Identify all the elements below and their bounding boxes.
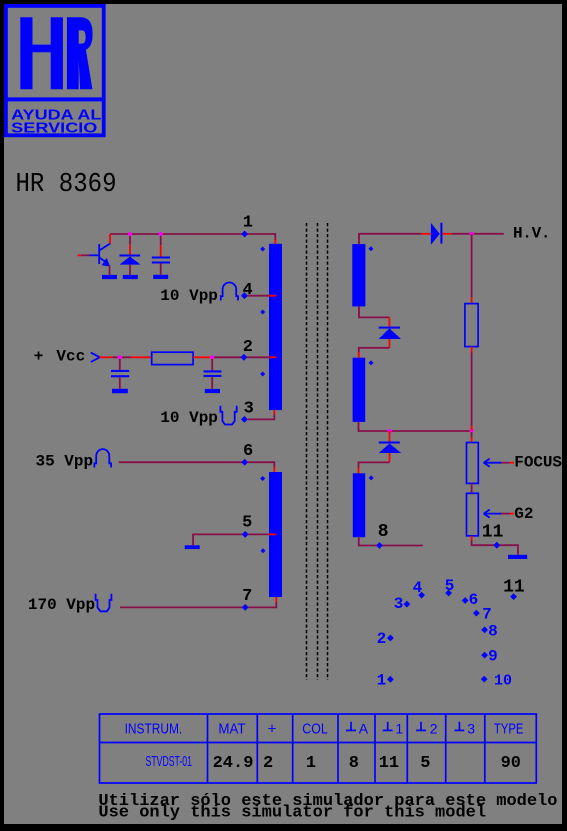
- svg-text:1: 1: [306, 754, 316, 773]
- wire: D2 anode to S2 top: [388, 339, 390, 348]
- wire: winding bottom to pin 3: [273, 410, 275, 415]
- svg-text:1: 1: [395, 721, 403, 737]
- wire: S3 bottom to pin 8: [359, 537, 423, 545]
- polarity dot S2: [369, 360, 374, 365]
- ground (emitter): [102, 275, 117, 279]
- pinout pin 3: [404, 601, 411, 608]
- diode D2: [379, 327, 400, 329]
- wire: Vcc feed: [100, 356, 113, 358]
- ground (pin 11): [508, 555, 527, 559]
- wire: bleeder to focus junction: [471, 347, 473, 353]
- svg-text:1: 1: [243, 214, 253, 233]
- wire: rail drop into winding top: [274, 240, 276, 244]
- svg-text:7: 7: [242, 587, 252, 606]
- svg-text:2: 2: [430, 721, 438, 737]
- table frame: [100, 714, 537, 783]
- pinout pin 10: [481, 676, 488, 683]
- svg-text:Vcc: Vcc: [56, 348, 85, 366]
- waveform pulse up (pin4): [221, 283, 238, 301]
- svg-text:A: A: [359, 721, 369, 737]
- header ⊥2: [416, 722, 426, 731]
- diode D3: [379, 442, 400, 444]
- pin 2 diamond: [241, 354, 248, 361]
- pinout pin 2: [387, 635, 394, 642]
- svg-text:11: 11: [379, 754, 399, 773]
- diode D4 (H.V. rectifier): [431, 223, 440, 245]
- pinout pin 4: [418, 592, 425, 599]
- wire: pin 4 tap: [248, 295, 270, 297]
- wire: C1 branch: [160, 236, 162, 245]
- header ⊥1: [383, 722, 393, 731]
- pin 3 diamond: [241, 416, 248, 423]
- logo letter H: [20, 17, 63, 89]
- potentiometer FOCUS: [467, 443, 479, 484]
- svg-text:Use only this simulator for th: Use only this simulator for this model: [98, 803, 486, 822]
- wire: between pots: [471, 483, 473, 493]
- pinout pin 8: [481, 627, 488, 634]
- polarity dot P2a: [260, 476, 265, 481]
- polarity dot P2b: [261, 548, 266, 553]
- polarity dot S1: [368, 246, 373, 251]
- logo letter R: [67, 17, 93, 89]
- winding S3: [353, 473, 365, 537]
- ground (pin5): [185, 545, 200, 549]
- svg-text:6: 6: [469, 591, 479, 609]
- wire: C3 to ground: [211, 377, 213, 389]
- svg-text:10 Vpp: 10 Vpp: [160, 287, 218, 305]
- waveform pulse up (pin6): [94, 449, 111, 467]
- ground (C1): [153, 275, 168, 279]
- wire: emitter to ground: [109, 266, 111, 276]
- wire: R1 to junction: [193, 356, 212, 358]
- svg-text:10 Vpp: 10 Vpp: [160, 409, 218, 427]
- pinout pin 7: [473, 610, 480, 617]
- wire: pin 5 to ground: [193, 534, 269, 545]
- svg-text:5: 5: [420, 754, 430, 773]
- pin 11 diamond: [493, 542, 500, 549]
- svg-text:STVDST-01: STVDST-01: [146, 753, 193, 770]
- capacitor C2: [111, 370, 129, 372]
- svg-text:2: 2: [377, 630, 387, 648]
- core dashed line 2: [317, 223, 319, 680]
- winding S1: [352, 244, 365, 306]
- polarity dot P1b: [260, 310, 265, 315]
- wire: winding P2 bottom to pin 7: [275, 597, 277, 603]
- polarity dot S3: [369, 475, 374, 480]
- svg-text:3: 3: [467, 721, 475, 737]
- ground (C3): [205, 389, 220, 393]
- svg-text:11: 11: [482, 523, 504, 543]
- pin 7 diamond: [242, 604, 249, 611]
- wire: S1 bottom to D2: [359, 306, 389, 317]
- svg-text:2: 2: [263, 754, 273, 773]
- wire: D4 to HV node: [442, 233, 452, 235]
- node: rail junction D1: [128, 232, 132, 236]
- wire: S2 bottom row: [359, 422, 472, 431]
- svg-text:6: 6: [243, 442, 253, 461]
- pinout pin 9: [481, 652, 488, 659]
- node: bleeder junction: [470, 429, 474, 433]
- node: D3 junction: [387, 429, 391, 433]
- svg-text:7: 7: [482, 605, 492, 623]
- pin 1 diamond: [241, 231, 248, 238]
- waveform pulse down (pin3): [220, 406, 236, 425]
- wire: top rail pin1: [110, 234, 275, 240]
- wire: D1 to ground: [129, 265, 131, 275]
- svg-text:35 Vpp: 35 Vpp: [36, 453, 94, 471]
- svg-text:TYPE: TYPE: [494, 721, 524, 738]
- winding P1: [269, 244, 282, 410]
- pin 8 diamond: [376, 542, 383, 549]
- ground (C2): [112, 389, 128, 393]
- table divider horizontal: [100, 742, 537, 744]
- table verticals: [207, 714, 209, 783]
- svg-text:170 Vpp: 170 Vpp: [28, 596, 95, 614]
- winding S2: [353, 358, 366, 422]
- wire: junction down to FOCUS pot: [471, 432, 473, 438]
- svg-text:8: 8: [488, 623, 498, 641]
- pinout pin 5: [445, 590, 452, 597]
- pin 4 diamond: [241, 292, 248, 299]
- svg-text:5: 5: [445, 577, 455, 595]
- node: C3 junction: [210, 355, 214, 359]
- node: H.V. junction: [470, 232, 474, 236]
- node: C2 junction: [118, 355, 122, 359]
- capacitor C1: [152, 257, 170, 259]
- input arrow >: [91, 353, 100, 362]
- svg-text:SERVICIO: SERVICIO: [11, 120, 97, 137]
- pinout pin 6: [462, 597, 469, 604]
- polarity dot P1c: [260, 372, 265, 377]
- logo divider bar: [4, 97, 106, 101]
- svg-text:MAT: MAT: [218, 721, 245, 738]
- svg-text:COL: COL: [302, 721, 327, 738]
- transistor Q1: [99, 244, 110, 267]
- node: rail junction C1: [159, 232, 163, 236]
- svg-text:HR 8369: HR 8369: [16, 169, 117, 199]
- svg-text:3: 3: [394, 595, 404, 613]
- capacitor C3: [204, 370, 222, 372]
- wire: C3 branch: [211, 359, 213, 371]
- svg-text:5: 5: [242, 514, 252, 533]
- wire: G2 pot to pin 11 and ground: [471, 536, 473, 541]
- svg-text:1: 1: [377, 672, 387, 690]
- resistor R1: [152, 352, 193, 364]
- wire: C1 to ground: [160, 264, 162, 275]
- svg-text:INSTRUM.: INSTRUM.: [125, 721, 183, 738]
- wire: D3 cathode lead: [389, 431, 391, 442]
- header ⊥A: [346, 722, 356, 731]
- arrow FOCUS: [484, 459, 502, 467]
- arrow G2: [484, 510, 502, 518]
- diode D1: [120, 255, 141, 257]
- logo frame: [6, 6, 104, 135]
- wire: pin 6 feed: [119, 462, 274, 467]
- svg-text:11: 11: [503, 578, 525, 598]
- wire: junction to pin 2: [214, 356, 269, 358]
- waveform pulse down (pin7): [96, 594, 112, 612]
- svg-text:G2: G2: [514, 505, 533, 523]
- svg-text:9: 9: [488, 647, 498, 665]
- pinout pin 1: [387, 676, 394, 683]
- wire: D1 branch: [129, 236, 131, 245]
- svg-text:90: 90: [501, 754, 521, 773]
- winding P2: [269, 472, 282, 597]
- svg-text:+: +: [268, 721, 277, 738]
- transistor Q1 collector lead: [109, 234, 111, 244]
- svg-text:4: 4: [413, 579, 423, 597]
- wire: D3 anode to S3 top: [389, 453, 391, 462]
- svg-text:8: 8: [349, 754, 359, 773]
- wire: C2 to ground: [119, 377, 121, 389]
- svg-text:24.9: 24.9: [213, 754, 254, 773]
- header ⊥3: [454, 722, 464, 731]
- wire: C2 branch: [119, 359, 121, 370]
- svg-text:8: 8: [378, 522, 389, 542]
- core dashed line 3: [327, 223, 329, 680]
- wire: D2 cathode lead: [388, 317, 390, 326]
- pinout pin 11: [510, 593, 517, 600]
- resistor R2 (bleeder): [465, 304, 478, 347]
- polarity dot P1a: [260, 247, 265, 252]
- svg-text:3: 3: [244, 399, 254, 418]
- wire: HV node down to bleeder: [471, 234, 473, 297]
- pin 5 diamond: [242, 531, 249, 538]
- svg-text:4: 4: [242, 281, 252, 300]
- svg-text:10: 10: [494, 673, 512, 690]
- wire: S1 top to HV diode: [359, 234, 421, 244]
- potentiometer G2: [467, 493, 479, 536]
- transistor Q1 base wire: [78, 254, 81, 256]
- core dashed line 1: [306, 223, 308, 680]
- svg-text:+: +: [34, 348, 44, 366]
- ground (D1): [123, 275, 138, 279]
- svg-text:H.V.: H.V.: [513, 225, 551, 243]
- svg-text:FOCUS: FOCUS: [514, 453, 562, 471]
- svg-text:2: 2: [243, 338, 253, 357]
- pin 6 diamond: [241, 459, 248, 466]
